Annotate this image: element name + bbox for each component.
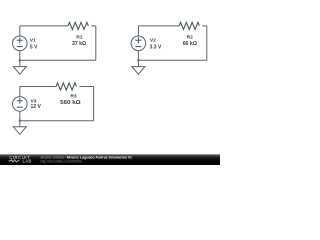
V3 minus sign: [17, 106, 23, 108]
voltage source V1: [12, 36, 27, 51]
wire bottom rail: [138, 59, 206, 61]
wire V1 bottom to ground: [19, 50, 21, 66]
wire top-left vertical (V2 top to top rail): [137, 26, 139, 36]
node junction (circuit 3): [19, 120, 21, 122]
wire top rail to resistor R3: [20, 86, 56, 88]
ground (circuit 3): [13, 127, 26, 135]
svg-text:R3: R3: [70, 94, 77, 100]
node junction (circuit 1): [19, 59, 21, 61]
wire resistor to top-right corner: [91, 25, 96, 27]
V1 minus sign: [17, 46, 23, 48]
svg-text:3.3 V: 3.3 V: [150, 44, 162, 50]
svg-text:http://circuitlab.com/c69b5d: http://circuitlab.com/c69b5d: [41, 159, 82, 163]
svg-text:R2: R2: [187, 34, 194, 40]
ground (circuit 1): [13, 67, 26, 75]
V2 plus sign: [135, 37, 141, 43]
voltage source V2: [131, 36, 146, 51]
svg-text:12 V: 12 V: [31, 104, 42, 110]
svg-text:66 kΩ: 66 kΩ: [183, 41, 197, 47]
CircuitLab logo resistor zigzag: [9, 160, 20, 162]
V1 plus sign: [17, 37, 23, 43]
wire V3 bottom to ground: [19, 111, 21, 127]
voltage source V3: [12, 97, 27, 112]
wire V2 bottom to ground: [137, 50, 139, 66]
svg-text:5 V: 5 V: [30, 44, 38, 50]
node junction (circuit 2): [137, 59, 139, 61]
ground (circuit 2): [132, 67, 145, 75]
svg-text:560 kΩ: 560 kΩ: [60, 100, 81, 106]
wire right side vertical: [93, 87, 95, 121]
wire resistor to top-right corner: [202, 25, 207, 27]
V3 plus sign: [17, 98, 23, 104]
wire right side vertical: [206, 26, 208, 60]
resistor R2 zigzag: [179, 22, 199, 29]
wire right side vertical: [95, 26, 97, 60]
wire top-left vertical (V3 top to top rail): [19, 87, 21, 97]
svg-text:V1: V1: [30, 38, 36, 44]
svg-text:V2: V2: [150, 38, 156, 44]
wire top-left vertical (V1 top to top rail): [19, 26, 21, 36]
svg-text:37 kΩ: 37 kΩ: [72, 41, 86, 47]
svg-text:LAB: LAB: [23, 158, 32, 163]
resistor R1 zigzag: [68, 22, 88, 29]
wire bottom rail: [20, 120, 94, 122]
wire bottom rail: [20, 59, 96, 61]
wire resistor to top-right corner: [79, 86, 93, 88]
wire top rail to resistor R1: [20, 25, 68, 27]
wire top rail to resistor R2: [138, 25, 179, 27]
V2 minus sign: [135, 46, 141, 48]
svg-text:R1: R1: [76, 34, 83, 40]
resistor R3 zigzag: [56, 83, 76, 90]
